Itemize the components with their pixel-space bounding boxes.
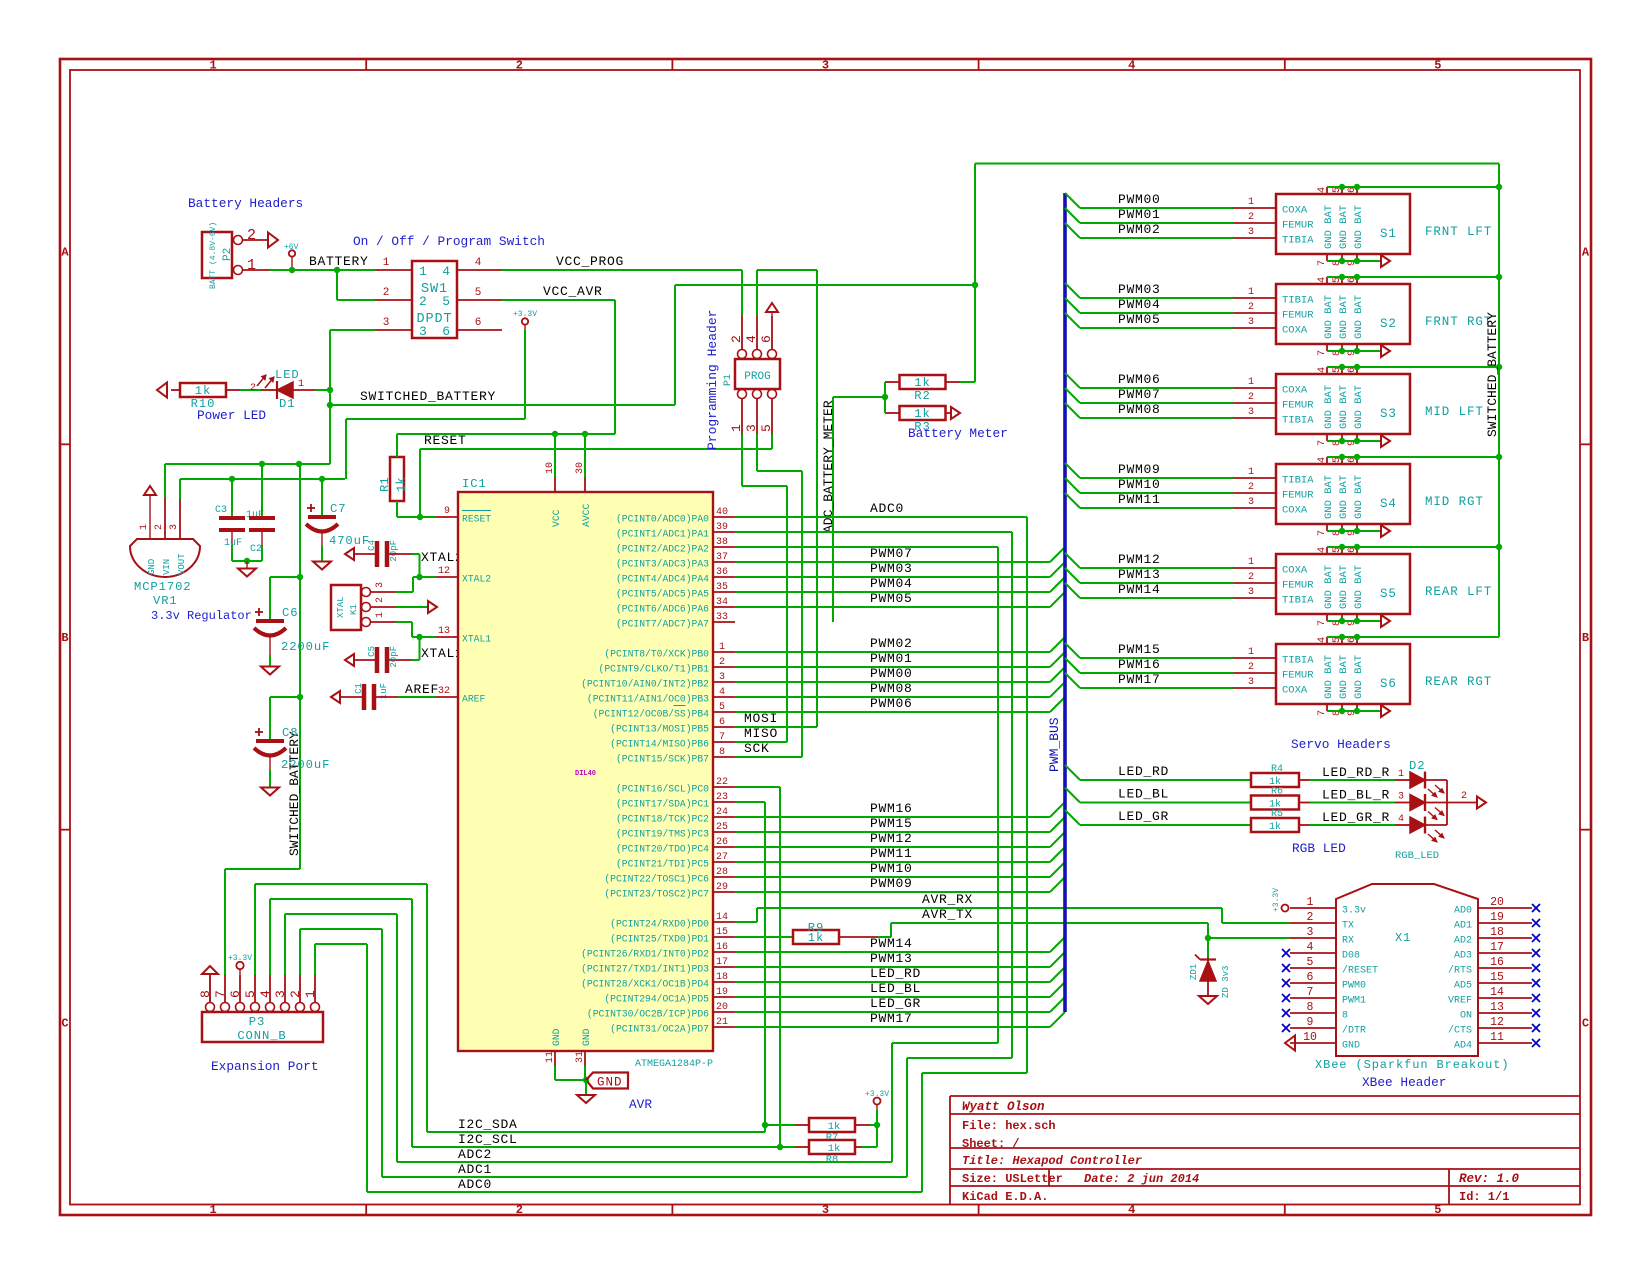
svg-text:GND BAT: GND BAT: [1353, 385, 1365, 429]
X1 pin 4: [1290, 952, 1336, 954]
capacitor C4: [345, 548, 354, 560]
svg-text:AD5: AD5: [1454, 981, 1472, 992]
svg-text:1: 1: [419, 264, 428, 279]
svg-text:GND BAT: GND BAT: [1353, 655, 1365, 699]
svg-text:Date: 2 jun 2014: Date: 2 jun 2014: [1084, 1172, 1199, 1186]
wire PWM05: [1065, 313, 1080, 328]
svg-text:Size: USLetter: Size: USLetter: [962, 1172, 1063, 1186]
svg-text:5: 5: [719, 702, 725, 713]
svg-text:6: 6: [1307, 971, 1314, 984]
X1 pin 3: [1290, 937, 1336, 939]
X1 pin 6: [1290, 982, 1336, 984]
svg-text:FEMUR: FEMUR: [1282, 310, 1314, 322]
wire PWM15: [1065, 643, 1080, 658]
switch SW1 DPDT: [412, 261, 457, 338]
svg-text:2: 2: [719, 657, 725, 668]
svg-text:2: 2: [247, 227, 256, 244]
wire PWM02: [735, 651, 1050, 653]
svg-text:3: 3: [1248, 407, 1254, 418]
svg-text:2: 2: [250, 383, 256, 394]
svg-text:TX: TX: [1342, 921, 1354, 932]
svg-text:PWM1: PWM1: [1342, 996, 1366, 1007]
svg-text:1: 1: [1398, 769, 1404, 780]
svg-text:Power LED: Power LED: [197, 408, 266, 423]
wire PWM09: [735, 891, 1050, 893]
svg-text:FEMUR: FEMUR: [1282, 670, 1314, 682]
svg-text:RX: RX: [1342, 936, 1354, 947]
svg-text:ADC0: ADC0: [870, 501, 904, 516]
svg-text:27: 27: [716, 852, 728, 863]
svg-text:GND BAT: GND BAT: [1338, 475, 1350, 519]
svg-text:4: 4: [719, 687, 725, 698]
svg-text:3: 3: [822, 59, 829, 73]
svg-text:GND: GND: [1342, 1041, 1360, 1052]
wire RESET: [419, 449, 421, 517]
svg-text:3: 3: [744, 424, 759, 432]
wire P3 pin4 I2C_SCL loop: [269, 899, 271, 975]
svg-text:AD1: AD1: [1454, 921, 1472, 932]
svg-text:A: A: [1582, 246, 1590, 260]
svg-text:FEMUR: FEMUR: [1282, 400, 1314, 412]
svg-text:PWM02: PWM02: [870, 636, 913, 651]
svg-text:4: 4: [1317, 367, 1328, 373]
svg-text:3: 3: [273, 990, 288, 998]
svg-text:Id: 1/1: Id: 1/1: [1459, 1190, 1509, 1204]
svg-text:ON: ON: [1460, 1011, 1472, 1022]
svg-text:3: 3: [1307, 926, 1314, 939]
svg-text:+6V: +6V: [284, 243, 299, 252]
svg-text:14: 14: [716, 912, 728, 923]
svg-text:13: 13: [1490, 1001, 1504, 1014]
svg-text:RGB_LED: RGB_LED: [1395, 850, 1439, 862]
svg-text:(PCINT294/OC1A)PD5: (PCINT294/OC1A)PD5: [604, 994, 709, 1005]
wire I2C SCL from PC0: [735, 786, 780, 788]
X1 pin 19: [1478, 922, 1532, 924]
svg-text:GND BAT: GND BAT: [1338, 205, 1350, 249]
svg-text:8: 8: [198, 990, 213, 998]
svg-text:3: 3: [1248, 317, 1254, 328]
IC1 pin 32 stub: [436, 696, 458, 698]
svg-text:26: 26: [716, 837, 728, 848]
svg-text:2: 2: [1248, 482, 1254, 493]
svg-text:Wyatt Olson: Wyatt Olson: [962, 1100, 1045, 1114]
no-connect: [1282, 964, 1290, 972]
wire S5 GND: [1327, 620, 1381, 622]
svg-text:C: C: [1582, 1016, 1589, 1030]
svg-text:6: 6: [759, 335, 774, 343]
wire I2C_SDA: [427, 1131, 765, 1133]
no-connect arrow K1 pin2: [396, 606, 428, 608]
svg-text:3.3v Regulator: 3.3v Regulator: [151, 609, 252, 623]
svg-text:1: 1: [1248, 197, 1254, 208]
wire LED_BL: [1065, 788, 1080, 803]
svg-text:20pF: 20pF: [389, 540, 399, 562]
svg-text:23: 23: [716, 792, 728, 803]
svg-text:1: 1: [1307, 896, 1314, 909]
svg-text:(PCINT28/XCK1/OC1B)PD4: (PCINT28/XCK1/OC1B)PD4: [581, 979, 709, 990]
svg-text:COXA: COXA: [1282, 205, 1308, 217]
svg-text:PWM11: PWM11: [870, 846, 913, 861]
resistor R5: [1251, 818, 1299, 832]
svg-text:PWM08: PWM08: [870, 681, 913, 696]
svg-text:1: 1: [1248, 377, 1254, 388]
svg-text:GND: GND: [581, 1028, 592, 1046]
ground arrow P3 pin8: [202, 966, 218, 974]
wire VCC_PROG: [502, 269, 742, 271]
svg-text:SCK: SCK: [744, 741, 770, 756]
capacitor C2: [261, 464, 263, 517]
ground: [577, 1095, 595, 1103]
svg-text:FRNT LFT: FRNT LFT: [1425, 225, 1492, 239]
connector P3 CONN_B: [202, 1012, 323, 1042]
svg-text:C8: C8: [282, 726, 298, 740]
svg-text:RESET: RESET: [424, 433, 467, 448]
svg-text:3.3v: 3.3v: [1342, 906, 1366, 917]
svg-text:GND BAT: GND BAT: [1323, 475, 1335, 519]
IC1 bottom pins GND: [554, 1051, 556, 1066]
capacitor C7: [321, 479, 323, 515]
connector S3: [1276, 374, 1410, 434]
svg-text:C5: C5: [367, 646, 377, 657]
svg-text:(PCINT6/ADC6)PA6: (PCINT6/ADC6)PA6: [616, 604, 709, 615]
svg-text:PWM08: PWM08: [1118, 402, 1161, 417]
svg-text:22: 22: [716, 777, 728, 788]
svg-text:30: 30: [575, 462, 586, 474]
svg-text:39: 39: [716, 522, 728, 533]
svg-text:34: 34: [716, 597, 728, 608]
X1 pin 9: [1290, 1027, 1336, 1029]
connector S5: [1276, 554, 1410, 614]
svg-text:(PCINT19/TMS)PC3: (PCINT19/TMS)PC3: [616, 829, 709, 840]
svg-text:6: 6: [228, 990, 243, 998]
wire PWM11: [1065, 493, 1080, 508]
wire XTAL1: [396, 621, 412, 623]
wire S2 BAT: [1327, 276, 1499, 278]
svg-text:C6: C6: [282, 606, 298, 620]
svg-text:C2: C2: [250, 544, 262, 555]
regulator VR1 MCP1702: [130, 539, 200, 577]
junction: [289, 267, 295, 273]
wire + ground: [232, 560, 262, 562]
svg-text:CONN_B: CONN_B: [237, 1029, 286, 1043]
svg-text:13: 13: [438, 626, 450, 637]
svg-text:6: 6: [442, 324, 451, 339]
resistor R3: [900, 406, 946, 420]
wire BATTERY: [270, 269, 375, 271]
wire PWM04: [1065, 298, 1080, 313]
svg-text:2: 2: [1248, 572, 1254, 583]
svg-text:4: 4: [1317, 457, 1328, 463]
wire S2 GND: [1327, 350, 1381, 352]
wire LED_GR_R: [1310, 824, 1395, 826]
wire P3 pin2 ADC1 loop: [299, 929, 301, 975]
wire VCC_AVR: [502, 299, 615, 301]
svg-text:TIBIA: TIBIA: [1282, 235, 1314, 247]
svg-text:6: 6: [719, 717, 725, 728]
wire PWM07: [735, 561, 1050, 563]
svg-text:9: 9: [444, 506, 450, 517]
wire VIN rail: [164, 464, 166, 497]
S2 power pins: [1326, 277, 1328, 284]
no-connect: [1532, 934, 1540, 942]
svg-text:GND BAT: GND BAT: [1338, 295, 1350, 339]
svg-text:AVR_TX: AVR_TX: [922, 907, 973, 922]
svg-text:(PCINT27/TXD1/INT1)PD3: (PCINT27/TXD1/INT1)PD3: [581, 964, 709, 975]
svg-text:1: 1: [1248, 287, 1254, 298]
svg-text:/DTR: /DTR: [1342, 1025, 1366, 1037]
power +6V: [289, 250, 295, 256]
wire SWITCHED_BATTERY: [330, 404, 675, 406]
svg-text:LED_GR: LED_GR: [870, 996, 921, 1011]
svg-text:20: 20: [716, 1002, 728, 1013]
svg-text:GND BAT: GND BAT: [1353, 475, 1365, 519]
svg-text:2: 2: [1248, 302, 1254, 313]
svg-text:PWM03: PWM03: [1118, 282, 1161, 297]
wire ADC2 bottom: [397, 1161, 892, 1163]
wire PWM06: [735, 711, 1050, 713]
wire PWM06: [1065, 373, 1080, 388]
svg-text:15: 15: [1490, 971, 1504, 984]
svg-text:(PCINT20/TDO)PC4: (PCINT20/TDO)PC4: [616, 844, 709, 855]
svg-text:File: hex.sch: File: hex.sch: [962, 1119, 1056, 1133]
svg-text:C7: C7: [330, 502, 346, 516]
svg-text:3: 3: [1248, 587, 1254, 598]
wire LED_GR: [1065, 810, 1080, 825]
svg-text:2: 2: [419, 294, 428, 309]
svg-text:PWM00: PWM00: [1118, 192, 1161, 207]
junction: [327, 402, 333, 408]
svg-text:REAR LFT: REAR LFT: [1425, 585, 1492, 599]
led D2 element: [1410, 817, 1425, 833]
svg-text:PWM07: PWM07: [1118, 387, 1161, 402]
svg-text:1k: 1k: [1269, 821, 1281, 833]
svg-text:(PCINT31/OC2A)PD7: (PCINT31/OC2A)PD7: [610, 1024, 709, 1035]
svg-text:FEMUR: FEMUR: [1282, 490, 1314, 502]
svg-text:1uF: 1uF: [224, 538, 242, 549]
svg-text:4: 4: [258, 990, 273, 998]
svg-text:2: 2: [375, 597, 386, 603]
svg-text:PWM12: PWM12: [1118, 552, 1161, 567]
IC1 pin 13 stub: [436, 636, 458, 638]
svg-text:2: 2: [383, 287, 390, 299]
svg-text:2: 2: [1248, 392, 1254, 403]
svg-text:1: 1: [375, 612, 386, 618]
connector P2: [202, 232, 232, 278]
wire S4 BAT: [1327, 456, 1499, 458]
wire to XTAL pin3: [413, 576, 420, 578]
svg-text:PWM15: PWM15: [870, 816, 913, 831]
svg-text:LED_GR: LED_GR: [1118, 809, 1169, 824]
svg-text:(PCINT25/TXD0)PD1: (PCINT25/TXD0)PD1: [610, 934, 709, 945]
no-connect: [1282, 1024, 1290, 1032]
connector S1: [1276, 194, 1410, 254]
svg-text:PWM12: PWM12: [870, 831, 913, 846]
X1 pin 2: [1290, 922, 1336, 924]
svg-text:2200uF: 2200uF: [281, 640, 330, 654]
wire PWM17: [1065, 673, 1080, 688]
svg-text:IC1: IC1: [462, 477, 487, 491]
junction: [334, 267, 340, 273]
wire MOSI: [735, 726, 817, 728]
svg-text:3: 3: [1248, 227, 1254, 238]
svg-text:GND BAT: GND BAT: [1353, 205, 1365, 249]
wire PWM17: [735, 1026, 1050, 1028]
connector S4: [1276, 464, 1410, 524]
wire PWM14: [1065, 583, 1080, 598]
svg-text:(PCINT3/ADC3)PA3: (PCINT3/ADC3)PA3: [616, 559, 709, 570]
svg-text:PWM01: PWM01: [870, 651, 913, 666]
svg-text:S2: S2: [1380, 317, 1397, 331]
wire PWM00: [1065, 193, 1080, 208]
svg-text:D1: D1: [279, 397, 295, 411]
svg-text:Programming Header: Programming Header: [705, 310, 720, 450]
svg-text:1k: 1k: [914, 376, 930, 390]
svg-text:MID LFT: MID LFT: [1425, 405, 1484, 419]
svg-text:LED_BL_R: LED_BL_R: [1322, 788, 1390, 803]
power flag arrow: [157, 383, 167, 398]
X1 pin 7: [1290, 997, 1336, 999]
svg-text:AVCC: AVCC: [581, 504, 592, 527]
svg-text:GND: GND: [147, 559, 157, 575]
title block frame: [950, 1095, 1580, 1097]
svg-text:1: 1: [719, 642, 725, 653]
svg-text:(PCINT14/MISO)PB6: (PCINT14/MISO)PB6: [610, 739, 709, 750]
wire PWM15: [735, 831, 1050, 833]
svg-text:(PCINT24/RXD0)PD0: (PCINT24/RXD0)PD0: [610, 919, 709, 930]
svg-text:4: 4: [1307, 941, 1314, 954]
VCC rail to IC: [397, 433, 615, 435]
svg-text:S4: S4: [1380, 497, 1397, 511]
svg-text:BATTERY: BATTERY: [309, 254, 369, 269]
wire PWM05: [735, 606, 1050, 608]
svg-text:PWM01: PWM01: [1118, 207, 1161, 222]
svg-text:PWM0: PWM0: [1342, 981, 1366, 992]
svg-text:38: 38: [716, 537, 728, 548]
svg-text:1: 1: [1248, 557, 1254, 568]
power +6V arrow: [144, 486, 156, 495]
no-connect: [1532, 1039, 1540, 1047]
no-connect: [1532, 1024, 1540, 1032]
resistor R1: [390, 457, 404, 501]
ground arrow at X1 pin10: [1285, 1036, 1295, 1051]
no-connect: [1282, 949, 1290, 957]
svg-text:12: 12: [438, 566, 450, 577]
svg-text:7: 7: [1317, 530, 1328, 536]
svg-text:LED_RD: LED_RD: [870, 966, 921, 981]
wire P1 pin3 to SCK column: [756, 434, 758, 471]
svg-text:31: 31: [575, 1051, 586, 1063]
svg-text:BATT (4.8V-6V): BATT (4.8V-6V): [209, 222, 218, 289]
wire PWM00: [735, 681, 1050, 683]
capacitor C8: [270, 696, 300, 698]
svg-text:Servo Headers: Servo Headers: [1291, 737, 1391, 752]
wire LED_RD: [735, 981, 1050, 983]
svg-text:4: 4: [1398, 814, 1404, 825]
svg-text:P3: P3: [249, 1015, 265, 1029]
IC1 top pins VCC AVCC: [554, 477, 556, 492]
svg-text:33: 33: [716, 612, 728, 623]
svg-text:DIL40: DIL40: [575, 770, 596, 778]
svg-text:Battery Headers: Battery Headers: [188, 196, 303, 211]
svg-text:3: 3: [375, 582, 386, 588]
svg-text:S5: S5: [1380, 587, 1397, 601]
resistor R10: [180, 383, 226, 397]
svg-text:7: 7: [1307, 986, 1314, 999]
svg-text:PWM09: PWM09: [870, 876, 913, 891]
wire ADC1 bottom: [382, 1176, 907, 1178]
svg-text:4: 4: [1317, 277, 1328, 283]
svg-text:6: 6: [475, 317, 482, 329]
svg-text:D2: D2: [1409, 759, 1425, 773]
svg-text:I2C_SCL: I2C_SCL: [458, 1132, 518, 1147]
led D2 element: [1410, 772, 1425, 788]
svg-text:3: 3: [419, 324, 428, 339]
svg-text:(PCINT10/AIN0/INT2)PB2: (PCINT10/AIN0/INT2)PB2: [581, 679, 709, 690]
svg-text:PWM06: PWM06: [870, 696, 913, 711]
svg-text:2: 2: [1307, 911, 1314, 924]
svg-text:GND BAT: GND BAT: [1323, 205, 1335, 249]
svg-text:AD3: AD3: [1454, 951, 1472, 962]
X1 pin 13: [1478, 1012, 1532, 1014]
X1 pin 17: [1478, 952, 1532, 954]
svg-text:1: 1: [209, 1203, 216, 1217]
wire PWM10: [735, 876, 1050, 878]
svg-text:AD0: AD0: [1454, 906, 1472, 917]
svg-text:VCC: VCC: [551, 509, 562, 527]
svg-text:1: 1: [383, 257, 390, 269]
IC1 right pins: [713, 516, 735, 518]
svg-text:1: 1: [1248, 467, 1254, 478]
S5 power pins: [1326, 547, 1328, 554]
svg-text:AREF: AREF: [405, 682, 439, 697]
X1 pin 18: [1478, 937, 1532, 939]
svg-text:PWM00: PWM00: [870, 666, 913, 681]
svg-text:COXA: COXA: [1282, 385, 1308, 397]
svg-text:PWM02: PWM02: [1118, 222, 1161, 237]
svg-text:14: 14: [1490, 986, 1504, 999]
svg-text:(PCINT15/SCK)PB7: (PCINT15/SCK)PB7: [616, 754, 709, 765]
svg-text:21: 21: [716, 1017, 728, 1028]
X1 pin 5: [1290, 967, 1336, 969]
svg-text:20pF: 20pF: [389, 646, 399, 668]
wire AVR_TX: [878, 936, 891, 938]
svg-text:MCP1702: MCP1702: [134, 580, 192, 594]
svg-text:I2C_SDA: I2C_SDA: [458, 1117, 518, 1132]
svg-text:C3: C3: [215, 505, 227, 516]
LED D1: [261, 389, 277, 391]
resistor R4: [1251, 773, 1299, 787]
X1 pin 12: [1478, 1027, 1532, 1029]
svg-text:P2: P2: [222, 248, 234, 261]
wire +3.3V rail: [524, 330, 526, 419]
S1 power pins: [1326, 187, 1328, 194]
wire PWM03: [735, 576, 1050, 578]
svg-text:TIBIA: TIBIA: [1282, 655, 1314, 667]
wire LED_RD: [1065, 765, 1080, 780]
svg-text:28: 28: [716, 867, 728, 878]
X1 pin 14: [1478, 997, 1532, 999]
connector S2: [1276, 284, 1410, 344]
svg-text:(PCINT0/ADC0)PA0: (PCINT0/ADC0)PA0: [616, 514, 709, 525]
junction: [327, 387, 333, 393]
svg-text:FEMUR: FEMUR: [1282, 220, 1314, 232]
svg-text:R1: R1: [378, 477, 392, 492]
wire: [315, 389, 330, 391]
wire I2C SDA from PC1: [735, 801, 765, 803]
S4 power pins: [1326, 457, 1328, 464]
capacitor C6: [270, 576, 300, 578]
svg-text:/RESET: /RESET: [1342, 965, 1378, 977]
